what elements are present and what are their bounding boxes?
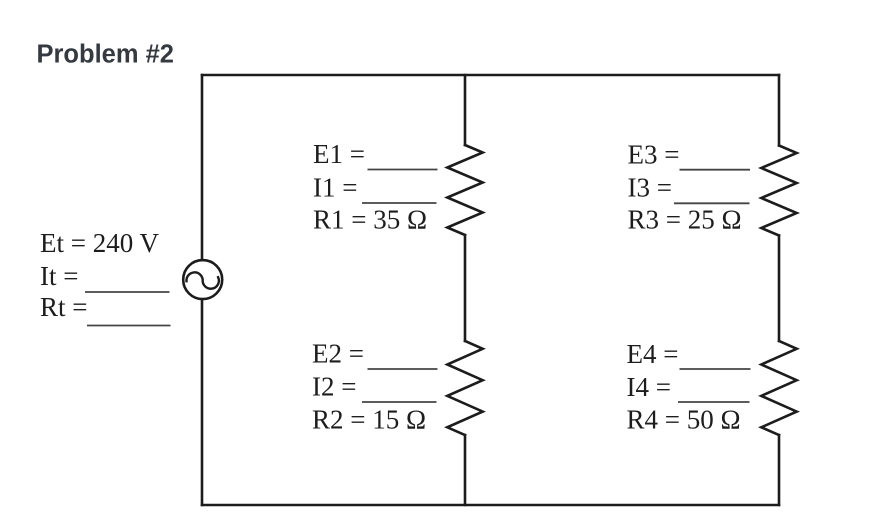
- blank line for It: [85, 291, 170, 293]
- svg-text:Problem #2: Problem #2: [37, 41, 174, 69]
- svg-text:I3 =: I3 =: [628, 173, 672, 203]
- svg-text:R2 = 15 Ω: R2 = 15 Ω: [312, 404, 426, 434]
- wire: middle branch top (top rail to R1): [464, 75, 467, 145]
- svg-text:E3 =: E3 =: [628, 139, 680, 169]
- blank line for E1: [368, 169, 438, 171]
- blank line for Rt: [87, 325, 171, 327]
- wire: middle branch between R1 and R2: [464, 235, 467, 341]
- wire: left lower segment (source V1 to bottom rail): [201, 300, 204, 506]
- svg-text:I4 =: I4 =: [627, 372, 671, 402]
- wire: right branch bottom (R4 to bottom rail): [778, 435, 781, 505]
- svg-text:Et = 240 V: Et = 240 V: [40, 228, 159, 258]
- resistor R1 (35 ohm) zigzag: [447, 145, 482, 235]
- blank line for E4: [680, 368, 751, 370]
- svg-text:R4 = 50 Ω: R4 = 50 Ω: [627, 404, 741, 434]
- wire: left upper segment (top rail to source V1): [201, 75, 204, 260]
- svg-text:It =: It =: [40, 261, 78, 291]
- wire: middle branch bottom (R2 to bottom rail): [464, 435, 467, 505]
- blank line for E3: [680, 169, 751, 171]
- resistor R4 (50 ohm) zigzag: [761, 341, 796, 435]
- svg-text:Rt =: Rt =: [40, 292, 88, 322]
- svg-text:E2 =: E2 =: [312, 339, 364, 369]
- svg-text:R1 = 35 Ω: R1 = 35 Ω: [313, 204, 427, 234]
- svg-text:I2 =: I2 =: [312, 372, 356, 402]
- resistor R2 (15 ohm) zigzag: [447, 341, 482, 435]
- wire: right branch between R3 and R4: [778, 236, 781, 342]
- AC source V1 circle: [183, 260, 222, 299]
- svg-text:E4 =: E4 =: [627, 339, 679, 369]
- wire: right branch top (top rail to R3): [778, 75, 781, 146]
- blank line for I3: [674, 202, 750, 204]
- svg-text:E1 =: E1 =: [313, 139, 365, 169]
- AC source V1 sine wave: [186, 272, 218, 288]
- blank line for I4: [678, 401, 750, 403]
- wire: top rail from node A (left) to node C (right): [202, 74, 779, 77]
- svg-text:R3 = 25 Ω: R3 = 25 Ω: [628, 205, 742, 235]
- resistor R3 (25 ohm) zigzag: [761, 146, 796, 236]
- blank line for I1: [362, 202, 437, 204]
- blank line for I2: [362, 401, 437, 403]
- blank line for E2: [368, 368, 438, 370]
- svg-text:I1 =: I1 =: [313, 172, 357, 202]
- wire: bottom rail from node D (left) to node F (right): [202, 504, 779, 507]
